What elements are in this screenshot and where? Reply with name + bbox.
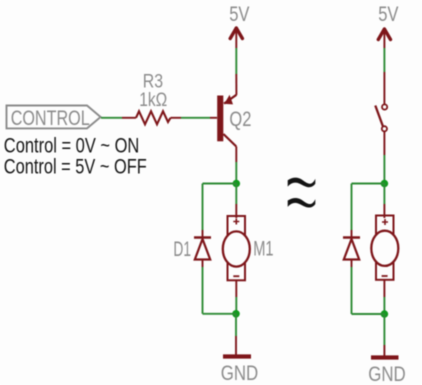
motor (right)	[371, 216, 398, 280]
wire: base pin stub (red)	[210, 117, 217, 119]
wire: right bottom branch horizontal (green)	[352, 313, 385, 315]
wire: right motor to bottom junction (green)	[383, 297, 385, 314]
wire: switch top pin (red)	[383, 72, 385, 104]
wire: switch bottom pin (red)	[383, 132, 385, 156]
wire: motor bottom pin (red)	[235, 280, 237, 297]
svg-text:D1: D1	[173, 238, 191, 261]
wire: collector to junction (green)	[235, 162, 237, 184]
svg-text:M1: M1	[253, 237, 273, 260]
wire: right motor bottom pin (red)	[383, 280, 385, 297]
ground symbol (right)	[371, 355, 399, 359]
wire: right junction to GND (green)	[383, 314, 385, 345]
wire: right GND pin stub (red)	[383, 345, 385, 357]
approx-equal symbol	[288, 178, 316, 208]
power symbol 5V (right) arrow	[378, 29, 390, 40]
wire: diode to bottom junction (green)	[202, 267, 204, 314]
wire: diode bottom pin (red)	[202, 260, 204, 268]
wire: collector pin stub (red)	[235, 147, 237, 163]
svg-text:5V: 5V	[378, 2, 399, 26]
wire: diode top pin (red)	[202, 230, 204, 237]
svg-text:GND: GND	[221, 361, 259, 385]
resistor R3 zigzag	[136, 111, 171, 124]
wire: right junction to motor (green)	[383, 184, 385, 205]
wire: right diode top pin (red)	[351, 230, 353, 237]
wire: 5V pin stub right (red)	[383, 31, 385, 49]
switch SW1 (open)	[375, 104, 387, 131]
wire: 5V pin stub (red)	[235, 30, 237, 49]
transistor Q2 (PNP)	[217, 95, 236, 147]
wire: junction to motor (green)	[235, 184, 237, 205]
wire: diode branch vertical (green)	[202, 184, 204, 231]
wire: 5V to emitter (green)	[235, 48, 237, 74]
wire: right diode branch vertical (green)	[351, 184, 353, 231]
junction dot (left bottom)	[232, 310, 240, 318]
wire: 5V to switch (green)	[383, 48, 385, 72]
svg-text:Q2: Q2	[229, 108, 251, 131]
wire: flag to resistor (green)	[101, 117, 122, 119]
junction dot (left top)	[233, 180, 241, 188]
svg-text:1kΩ: 1kΩ	[139, 89, 167, 111]
diode D1	[194, 238, 211, 260]
ground symbol (left)	[223, 354, 251, 358]
wire: motor to bottom junction (green)	[235, 297, 237, 314]
wire: junction to GND (green)	[235, 314, 237, 336]
label CONTROL flag	[7, 106, 101, 131]
wire: right motor top pin (red)	[383, 204, 385, 218]
wire: switch to junction (green)	[383, 155, 385, 184]
wire: motor top pin (red)	[235, 204, 237, 218]
wire: resistor right pin (red)	[171, 117, 182, 119]
wire: emitter pin stub (red)	[235, 74, 237, 95]
wire: resistor to base (green)	[181, 117, 210, 119]
power symbol 5V (left) arrow	[230, 28, 242, 39]
wire: resistor left pin (red)	[122, 117, 136, 119]
svg-text:GND: GND	[368, 362, 406, 385]
wire: right diode bottom pin (red)	[351, 260, 353, 268]
junction dot (right top)	[381, 180, 389, 188]
wire: GND pin stub (red)	[235, 336, 237, 356]
wire: branch to diode (green horizontal)	[203, 183, 237, 185]
svg-text:Control = 5V ~ OFF: Control = 5V ~ OFF	[4, 155, 147, 178]
wire: bottom branch horizontal (green)	[203, 313, 237, 315]
junction dot (right bottom)	[381, 310, 389, 318]
svg-text:Control = 0V ~ ON: Control = 0V ~ ON	[4, 135, 140, 158]
diode (right)	[343, 238, 360, 260]
wire: branch to right diode (green horizontal)	[352, 183, 385, 185]
svg-text:5V: 5V	[229, 2, 250, 26]
motor M1	[223, 216, 250, 280]
wire: right diode to bottom junction (green)	[351, 267, 353, 314]
svg-text:CONTROL: CONTROL	[11, 107, 90, 130]
